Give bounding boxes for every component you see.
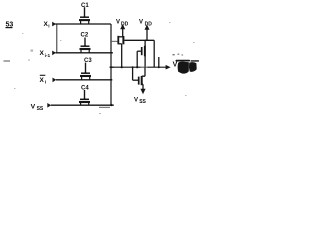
svg-text:V: V <box>116 20 120 26</box>
common bus vertical <box>110 24 112 105</box>
overline of X_i bar <box>40 74 46 76</box>
figure number 53 <box>6 22 14 29</box>
transistor Q7 gate bar <box>138 77 140 85</box>
wire row 4 (V_SS) <box>51 104 114 106</box>
label X_i <box>44 21 50 30</box>
transistor C4 channel <box>79 101 90 103</box>
transistor C2 gate bar <box>81 45 90 47</box>
transistor C1 gate stem <box>84 7 86 16</box>
label C3 <box>84 58 92 64</box>
svg-text:V: V <box>31 103 36 110</box>
transistor C4 source/drain stubs <box>81 102 89 105</box>
transistor Q5 bottom jog <box>118 43 121 45</box>
label X_i bar (inverted) <box>40 77 47 86</box>
label X_i-1 <box>40 50 51 59</box>
transistor Q5 source stem down to rail <box>121 44 123 67</box>
output rail <box>111 66 166 68</box>
svg-text:SS: SS <box>37 106 44 112</box>
label V_SS row 4 <box>31 103 44 112</box>
transistor Q7 gate lead <box>133 79 138 81</box>
stray dash left margin <box>4 60 11 62</box>
transistor C2 gate stem <box>84 38 86 46</box>
svg-text:V: V <box>173 62 178 69</box>
junction dot Q6 drain/long line <box>145 40 147 42</box>
transistor Q6 gate lead <box>137 50 141 52</box>
label V_SS bottom <box>134 98 147 105</box>
transistor C4 gate stem <box>84 90 86 99</box>
svg-text:SS: SS <box>139 99 146 105</box>
label C2 <box>81 33 89 39</box>
faint dots above blob <box>173 54 184 56</box>
vertical crease line joining row1 and row2 <box>56 24 58 53</box>
svg-text:i-1: i-1 <box>45 53 51 59</box>
underline of 53 <box>6 27 13 29</box>
svg-text:X: X <box>40 77 45 84</box>
transistor Q6 source stem <box>144 56 146 67</box>
transistor C3 channel <box>80 75 91 77</box>
input chevron row 2 <box>52 51 56 56</box>
junction dot row4 corner <box>110 104 112 106</box>
svg-text:V: V <box>134 98 138 104</box>
transistor Q6 drain stem <box>144 40 146 46</box>
input chevron row 3 <box>53 78 57 83</box>
transistor C2 channel <box>80 48 91 50</box>
V_DD left arrow <box>122 29 124 37</box>
junction bus/rail <box>110 66 114 68</box>
label C4 <box>81 86 89 92</box>
svg-text:i: i <box>48 24 49 30</box>
transistor C4 gate bar <box>80 98 89 100</box>
transistor C2 source/drain stubs <box>81 49 89 53</box>
wire row 2 (X_i-1) <box>56 52 113 54</box>
transistor Q5 channel bar <box>117 36 119 45</box>
transistor C1 channel <box>79 19 90 21</box>
wire row 1 (X_i) <box>55 23 111 25</box>
scan speckles <box>14 22 195 114</box>
transistor C3 gate stem <box>85 63 87 73</box>
V_SS arrow under Q7 <box>140 89 145 95</box>
transistor C1 gate bar <box>80 16 89 18</box>
transistor Q7 source jog <box>142 84 143 89</box>
junction dots on rail <box>110 66 160 68</box>
label C1 <box>81 3 89 9</box>
transistor C3 gate bar <box>81 72 90 74</box>
output arrowhead <box>166 65 171 70</box>
svg-text:V: V <box>139 20 143 26</box>
Q5 gate lead / cross line to right leg <box>124 39 154 41</box>
input chevron row 4 <box>47 103 51 108</box>
tick on rail <box>158 57 160 67</box>
svg-text:i: i <box>45 80 46 86</box>
svg-text:DD: DD <box>145 21 153 27</box>
wire row 3 (X_i bar) <box>56 79 112 81</box>
transistor Q6 gate bar <box>141 47 143 55</box>
label V_DD right <box>139 20 152 28</box>
transistor Q5 gate bar <box>122 36 124 44</box>
V_DD right arrow <box>146 29 148 40</box>
junction dots on bus <box>110 52 112 81</box>
right leg down to rail <box>153 40 155 67</box>
transistor C3 source/drain stubs <box>82 76 90 80</box>
transistor Q5 drain jog <box>118 36 122 38</box>
transistor Q5 gate stub from bus <box>111 40 118 42</box>
transistor Q7 gate leg from rail <box>132 67 134 80</box>
transistor C1 source/drain stubs <box>81 20 89 24</box>
transistor Q6 channel bar <box>144 46 146 57</box>
transistor Q6 gate leg to rail <box>136 51 138 67</box>
label V_DD left <box>116 20 129 28</box>
input chevron row 1 <box>52 22 56 27</box>
smudged output subscript blob <box>176 60 200 74</box>
transistor Q7 channel bar <box>141 76 143 85</box>
output label V <box>173 62 178 69</box>
transistor Q7 drain jog and stem to rail <box>142 67 145 76</box>
